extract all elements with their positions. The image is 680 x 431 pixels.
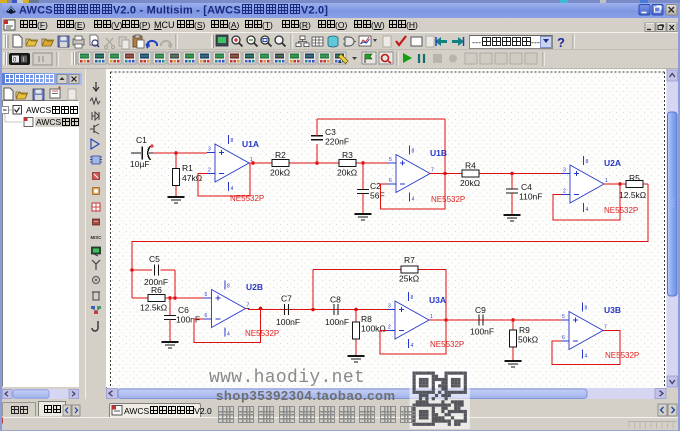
svg-text:?: ? <box>557 35 565 50</box>
svg-text:MISC: MISC <box>91 235 103 240</box>
svg-text:*: * <box>58 85 61 94</box>
